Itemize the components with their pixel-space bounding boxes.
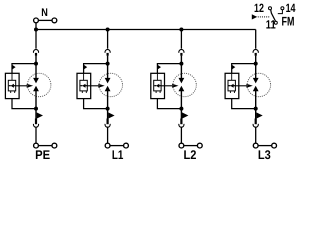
junction PE top node: [34, 28, 38, 32]
svg-text:11: 11: [266, 18, 276, 32]
junction L1 bottom node: [106, 107, 110, 111]
indicator feed wire (L3): [231, 73, 233, 80]
wire L3 to terminal: [255, 127, 257, 143]
spark gap lower electrode (L2): [179, 86, 185, 92]
indicator legs (L1): [82, 91, 86, 93]
wire PE below spark gap: [35, 91, 37, 119]
svg-text:L3: L3: [258, 148, 271, 162]
pluggable module circle (L3): [247, 73, 270, 96]
plug-in contact bottom (L2 socket): [179, 124, 184, 127]
FM contact 14: [281, 7, 284, 10]
plug-in contact bottom pin (L3): [255, 119, 257, 125]
actuation arrow to spark gap (L1): [87, 84, 104, 88]
pluggable module circle (PE): [28, 73, 51, 96]
junction L3 monitoring tap node: [254, 62, 258, 66]
monitoring device box (L2): [151, 73, 165, 98]
status indicator inner box (PE): [8, 80, 15, 91]
wire monitoring branch top (L3): [232, 64, 256, 74]
terminal PE left: [34, 143, 39, 148]
wire L2 pin to spark gap: [180, 56, 182, 79]
wire terminal bridge (L3): [258, 145, 272, 147]
svg-text:14: 14: [286, 1, 296, 15]
terminal L1 left: [105, 143, 110, 148]
plug-in contact top pin (L3): [255, 53, 257, 56]
indicator element symbol (L2): [154, 84, 161, 88]
wire N terminal bridge: [38, 19, 52, 21]
junction PE monitoring tap node: [34, 62, 38, 66]
indicator element symbol (PE): [9, 84, 16, 88]
wire terminal bridge (L2): [184, 145, 198, 147]
spark gap upper electrode (L2): [179, 78, 185, 84]
disconnect flag (L3): [256, 112, 262, 118]
plug-in contact top pin (L2): [180, 53, 182, 56]
actuation arrow to spark gap (L3): [235, 84, 252, 88]
indicator feed wire (L1): [83, 73, 85, 80]
junction L1 top node: [106, 28, 110, 32]
wire L1 to terminal: [107, 127, 109, 143]
plug-in contact bottom (L3 socket): [253, 124, 258, 127]
disconnect flag (PE): [37, 112, 43, 118]
wire monitoring branch bottom (L3): [232, 99, 256, 109]
wire monitoring branch top (L2): [157, 64, 181, 74]
status indicator inner box (L3): [228, 80, 235, 91]
wire L3 pin to spark gap: [255, 56, 257, 79]
plug-in contact bottom (L1 socket): [105, 124, 110, 127]
junction L2 monitoring tap node: [179, 62, 183, 66]
wire N terminal to bus: [35, 23, 37, 30]
indicator feed wire (PE): [11, 73, 13, 80]
wire PE drop from N bus: [35, 30, 37, 49]
monitoring device box (L1): [77, 73, 91, 98]
indicator legs (PE): [11, 91, 15, 93]
thermal disconnect arrow top (PE): [12, 65, 15, 70]
wire L2 to terminal: [180, 127, 182, 143]
pluggable module circle (L2): [173, 73, 196, 96]
wire L3 drop from N bus: [255, 30, 257, 49]
junction PE bottom node: [34, 107, 38, 111]
plug-in contact bottom pin (L1): [106, 119, 108, 125]
thermal disconnect arrow top (L1): [84, 65, 87, 70]
monitoring device box (PE): [5, 73, 19, 98]
terminal N left: [34, 18, 39, 23]
plug-in contact top pin (PE): [35, 53, 37, 56]
N bus wire: [36, 29, 256, 31]
wire terminal bridge (L1): [110, 145, 124, 147]
indicator feed wire (L2): [156, 73, 158, 80]
FM mechanical link (dashed): [258, 16, 270, 18]
wire PE pin to spark gap: [35, 56, 37, 79]
terminal L3 right: [272, 143, 277, 148]
wire monitoring branch bottom (L2): [157, 99, 181, 109]
terminal L1 right: [124, 143, 129, 148]
svg-text:12: 12: [254, 1, 264, 15]
svg-text:L1: L1: [112, 148, 124, 162]
plug-in contact top pin (L1): [106, 53, 108, 56]
status indicator inner box (L2): [154, 80, 161, 91]
disconnect flag (L2): [182, 112, 188, 118]
disconnect flag (L1): [108, 112, 114, 118]
junction L3 bottom node: [254, 107, 258, 111]
terminal PE right: [52, 143, 57, 148]
plug-in contact bottom pin (PE): [35, 119, 37, 125]
wire terminal bridge (PE): [38, 145, 52, 147]
wire L1 below spark gap: [107, 91, 109, 119]
spark gap lower electrode (L1): [105, 86, 111, 92]
plug-in contact top (PE path socket): [33, 49, 38, 52]
actuation arrow to spark gap (L2): [161, 84, 178, 88]
terminal L3 left: [253, 143, 258, 148]
indicator legs (L3): [230, 91, 234, 93]
indicator element symbol (L1): [80, 84, 87, 88]
wire monitoring branch bottom (PE): [12, 99, 36, 109]
wire L1 pin to spark gap: [107, 56, 109, 79]
spark gap upper electrode (PE): [33, 78, 39, 84]
plug-in contact bottom pin (L2): [180, 119, 182, 125]
FM contact 11: [274, 21, 277, 24]
monitoring device box (L3): [225, 73, 239, 98]
wire L3 below spark gap: [255, 91, 257, 119]
status indicator inner box (L1): [80, 80, 87, 91]
wire PE to terminal: [35, 127, 37, 143]
pluggable module circle (L1): [99, 73, 122, 96]
wire L1 drop from N bus: [107, 30, 109, 49]
plug-in contact top (L2 path socket): [179, 49, 184, 52]
svg-text:L2: L2: [184, 148, 197, 162]
svg-text:FM: FM: [282, 15, 295, 29]
indicator element symbol (L3): [229, 84, 236, 88]
plug-in contact top (L3 path socket): [253, 49, 258, 52]
terminal L2 left: [179, 143, 184, 148]
svg-text:PE: PE: [35, 148, 50, 162]
thermal disconnect arrow top (L3): [232, 65, 235, 70]
plug-in contact bottom (PE socket): [33, 124, 38, 127]
wire monitoring branch top (L1): [84, 64, 108, 74]
FM contact 12: [269, 7, 272, 10]
terminal N right: [52, 18, 57, 23]
actuation arrow to spark gap (PE): [16, 84, 33, 88]
indicator legs (L2): [156, 91, 160, 93]
spark gap lower electrode (PE): [33, 86, 39, 92]
FM switch lever: [271, 10, 276, 22]
wire monitoring branch bottom (L1): [84, 99, 108, 109]
spark gap upper electrode (L3): [253, 78, 259, 84]
thermal disconnect arrow top (L2): [158, 65, 161, 70]
spark gap lower electrode (L3): [253, 86, 259, 92]
svg-text:N: N: [41, 7, 48, 19]
spark gap upper electrode (L1): [105, 78, 111, 84]
wire L2 below spark gap: [180, 91, 182, 119]
wire L2 drop from N bus: [180, 30, 182, 49]
plug-in contact top (L1 path socket): [105, 49, 110, 52]
FM contact 14 lead: [278, 10, 283, 14]
wire monitoring branch top (PE): [12, 64, 36, 74]
FM actuation arrow: [252, 14, 257, 19]
terminal L2 right: [197, 143, 202, 148]
junction L1 monitoring tap node: [106, 62, 110, 66]
junction L2 top node: [179, 28, 183, 32]
junction L2 bottom node: [179, 107, 183, 111]
